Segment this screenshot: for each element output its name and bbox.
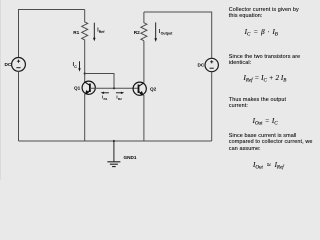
current arrow I_Output — [154, 22, 157, 42]
svg-text:R1: R1 — [73, 30, 79, 35]
transistor Q2 label — [150, 87, 157, 92]
resistor R2 — [141, 12, 147, 83]
svg-text:DC: DC — [198, 63, 205, 68]
current label I_C — [73, 62, 78, 69]
node junction ground tap — [113, 140, 115, 142]
ground GND1 — [107, 141, 120, 167]
current arrow I_B1 — [101, 92, 109, 94]
current label I_B2 — [116, 94, 122, 100]
wire Q1 emitter to rail — [84, 94, 86, 141]
transistor Q2 — [133, 82, 146, 95]
svg-text:DC: DC — [5, 62, 12, 67]
DC source V1 — [12, 58, 26, 72]
current label I_Ref — [97, 28, 105, 34]
resistor R1 — [82, 10, 88, 74]
wire base rail Q1 to Q2 — [90, 87, 138, 89]
current arrow I_B2 — [116, 92, 124, 94]
wire DC2 bottom to rail — [211, 72, 213, 141]
wire R1 bottom to Q1 collector — [84, 74, 86, 83]
current arrow I_Ref — [93, 23, 96, 42]
ground GND1 label — [124, 155, 137, 160]
resistor R2 label — [134, 30, 140, 35]
DC source V2 — [205, 58, 218, 71]
svg-text:GND1: GND1 — [124, 155, 137, 160]
current label I_Output — [159, 29, 173, 35]
svg-text:R2: R2 — [134, 30, 140, 35]
svg-text:B2: B2 — [118, 97, 122, 101]
wire Q2 emitter to rail — [143, 95, 145, 141]
svg-text:Q1: Q1 — [74, 86, 81, 91]
svg-text:Ref: Ref — [99, 30, 106, 34]
DC source V2 label — [198, 63, 205, 68]
current label I_B1 — [102, 94, 108, 100]
transistor Q1 — [82, 81, 95, 94]
current arrow I_C — [78, 61, 80, 71]
node junction base tap — [113, 87, 115, 89]
wire diode-connection branch to base — [85, 74, 114, 89]
svg-text:Output: Output — [161, 32, 174, 36]
transistor Q1 label — [74, 86, 81, 91]
resistor R1 label — [73, 30, 79, 35]
svg-text:B1: B1 — [104, 97, 108, 101]
wire DC1 bottom to rail — [18, 71, 20, 141]
wire top rail R2 to DC2 — [144, 12, 212, 59]
slide left edge shade — [0, 0, 1, 180]
bottom rail wire — [19, 140, 212, 142]
node junction at collector branch — [84, 72, 86, 74]
wire top-left rail from DC1 to R1 — [19, 10, 85, 59]
svg-text:Q2: Q2 — [150, 87, 157, 92]
svg-text:C: C — [74, 65, 77, 69]
DC source V1 label — [5, 62, 12, 67]
